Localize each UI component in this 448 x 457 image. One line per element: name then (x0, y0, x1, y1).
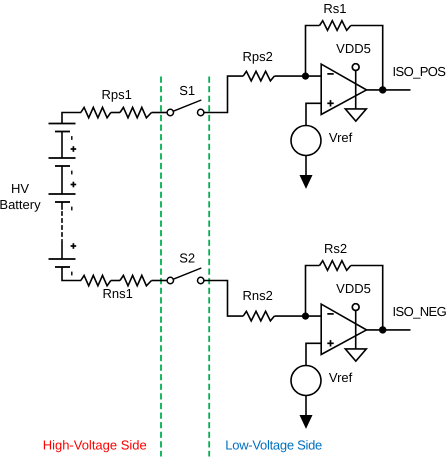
ground (bottom, under U2) (345, 349, 366, 361)
voltage source Vref (top) (291, 126, 321, 156)
label Rns1 (103, 286, 133, 301)
boundary dashed line right (isolation barrier) (208, 77, 210, 457)
battery HV: cell plates (49, 124, 76, 268)
wire U2 output (367, 329, 411, 331)
node ISO_POS output junction (379, 86, 386, 93)
voltage source Vref (bottom) (291, 366, 321, 396)
ground (top, under U1) (345, 109, 366, 121)
label Low-Voltage Side (225, 437, 322, 452)
arrow (Vref bottom return) (300, 415, 313, 429)
label S2 (179, 251, 195, 266)
svg-text:Rps2: Rps2 (243, 49, 273, 64)
label VDD5 (top) (336, 41, 371, 56)
battery HV: polarity marks (71, 136, 77, 275)
wire U1 non-inverting input to Vref (306, 103, 321, 125)
svg-text:Rns2: Rns2 (243, 288, 273, 303)
wire Rps1 to S1 (152, 112, 167, 114)
label ISO_POS (393, 64, 447, 79)
label HV Battery (0, 181, 41, 212)
svg-text:S2: S2 (179, 251, 195, 266)
svg-text:Vref: Vref (329, 370, 353, 385)
node ISO_NEG output junction (379, 326, 386, 333)
resistor Rns1 (two series zigzags) (81, 275, 111, 285)
svg-text:VDD5: VDD5 (336, 41, 371, 56)
power VDD5 terminal (top) (352, 64, 359, 109)
switch S2 (167, 268, 204, 284)
svg-text:Rs2: Rs2 (324, 241, 347, 256)
label Rps2 (243, 49, 273, 64)
wire S1 to Rps2 (204, 76, 243, 112)
power VDD5 terminal (bottom) (352, 304, 359, 349)
svg-text:Rps1: Rps1 (102, 87, 132, 102)
svg-text:HV: HV (11, 181, 29, 196)
wire S2 to Rns2 (204, 281, 243, 317)
label Rs2 (324, 241, 347, 256)
wire U1 output (367, 89, 411, 91)
label S1 (179, 83, 195, 98)
battery HV: inter-cell connectors (61, 132, 63, 260)
wire U2 non-inverting input to Vref (306, 343, 321, 365)
svg-text:Battery: Battery (0, 197, 41, 212)
svg-text:Vref: Vref (329, 130, 353, 145)
svg-text:S1: S1 (179, 83, 195, 98)
wire between Rns1 zigzags (111, 280, 120, 282)
arrow (Vref top return) (300, 175, 313, 189)
wire Rns1 to S2 (152, 280, 167, 282)
svg-text:Rns1: Rns1 (103, 286, 133, 301)
wire Vref to arrow (305, 156, 307, 178)
svg-text:High-Voltage Side: High-Voltage Side (43, 437, 147, 452)
battery HV: top wire (62, 113, 81, 124)
op-amp U1 (321, 64, 366, 114)
node B (U2 inverting input junction) (302, 313, 309, 320)
label Rps1 (102, 87, 132, 102)
resistor Rps1 (two series zigzags) (81, 107, 111, 117)
label Vref (top) (329, 130, 353, 145)
svg-text:Low-Voltage Side: Low-Voltage Side (225, 437, 322, 452)
svg-text:ISO_POS: ISO_POS (393, 64, 447, 79)
svg-text:VDD5: VDD5 (336, 281, 371, 296)
svg-text:Rs1: Rs1 (323, 1, 346, 16)
wire between Rps1 zigzags (111, 112, 120, 114)
boundary dashed line left (isolation barrier) (160, 77, 162, 457)
battery HV: bottom wire (62, 267, 81, 281)
wire Vref to arrow (bottom) (305, 396, 307, 418)
label ISO_NEG (393, 304, 447, 319)
label Rns2 (243, 288, 273, 303)
label High-Voltage Side (43, 437, 147, 452)
resistor Rs1 feedback (306, 21, 383, 90)
label Vref (bottom) (329, 370, 353, 385)
switch S1 (167, 100, 204, 116)
node A (U1 inverting input junction) (302, 73, 309, 80)
label Rs1 (323, 1, 346, 16)
resistor Rps2 (243, 71, 274, 81)
svg-text:ISO_NEG: ISO_NEG (393, 304, 447, 319)
resistor Rns2 (243, 311, 274, 321)
resistor Rs2 feedback (306, 261, 383, 330)
wire Rns2 to op-amp U2 inverting input (274, 315, 321, 317)
op-amp U2 (321, 304, 366, 354)
label VDD5 (bottom) (336, 281, 371, 296)
wire Rps2 to op-amp U1 inverting input (274, 75, 321, 77)
